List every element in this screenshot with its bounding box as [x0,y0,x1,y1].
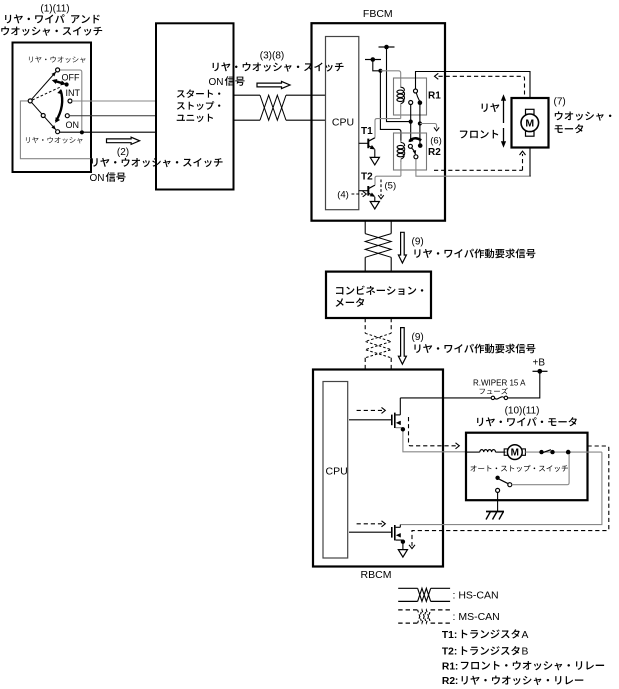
signal (9) block arrow to RBCM [398,328,406,365]
svg-text:T1: T1 [442,630,454,641]
front arrow [503,128,505,145]
wire mid to start-stop unit [69,115,155,117]
node common junction [80,130,84,134]
wire to R1 coil [380,71,400,86]
T1 collector wire to R1 coil [375,119,401,138]
R2 moving arm [412,148,416,154]
R2 bold arm arc [409,138,421,141]
thick OFF movement arrow [54,81,64,84]
MOSFET Q2 low side [349,531,392,533]
legend HS-CAN symbol [398,587,417,589]
contact OFF (top) [56,68,60,72]
svg-text:(10)(11): (10)(11) [505,406,540,417]
motor armature [507,445,522,460]
wire R2 common to motor return [416,159,531,176]
switch arm dashed INT position [32,87,59,100]
svg-text:R2: R2 [442,676,455,687]
R1 contact common wire to washer motor [416,72,531,99]
svg-text::: : [455,661,458,672]
combination meter box [326,272,431,318]
svg-text:R.WIPER 15 A: R.WIPER 15 A [473,379,526,388]
switch arm to OFF contact [32,72,57,100]
svg-text:(1)(11): (1)(11) [40,4,69,15]
svg-text:R1: R1 [428,91,441,102]
motor return wire to Q2 [400,452,602,524]
switch SW1 box [13,43,92,173]
rear wiper motor box [466,433,588,501]
wire B2 to coils junction [373,60,381,71]
chassis ground [486,511,504,513]
T2 ground [370,202,379,210]
R2 arm contact node [418,143,423,148]
MS-CAN meter to RBCM (dashed) [364,318,366,333]
HS-CAN twist [260,95,286,120]
relay R2 rear washer relay [394,133,427,170]
RBCM box [313,370,443,567]
contact bottom [56,130,60,134]
start-stop unit U1 [156,23,234,189]
svg-text:(3)(8): (3)(8) [260,51,284,62]
svg-text:(7): (7) [554,97,566,108]
Q1 drain wire [399,398,401,415]
wire common to start-stop unit [60,131,156,133]
MOSFET Q1 high side [349,419,392,421]
contact INT [68,99,72,103]
Q2 drain wire [399,525,401,528]
RBCM CPU box [323,382,348,559]
signal (9) block arrow to meter [398,232,406,263]
svg-text::: : [454,630,457,641]
wire motor to auto-stop contacts [525,451,602,453]
relay R1 front washer relay [394,78,427,115]
svg-text:ON: ON [66,120,80,130]
svg-text:(5): (5) [385,181,397,192]
auto-stop switch label [470,465,567,472]
washer motor M1 feedback dashed [439,76,525,94]
HS-CAN FBCM to meter [364,221,366,234]
contact on lower arm [41,114,45,118]
dashed feedback from motor [412,446,609,546]
thick INT/ON movement arc [56,91,62,122]
svg-text:T2: T2 [361,172,373,183]
auto-stop ground contact [496,488,500,492]
dashed drive arrow CPU to Q1 [357,409,382,411]
wire INT to start-stop unit [72,100,156,102]
dashed drive arrow CPU to Q2 [357,523,382,525]
svg-text:RBCM: RBCM [361,569,392,581]
svg-text:CPU: CPU [326,466,348,478]
signal (6) sense wire [420,124,437,129]
wire fuse to Q1 drain [400,397,491,399]
svg-text:B: B [522,647,529,658]
R2 coil [400,141,402,144]
washer motor return wire [529,148,531,177]
wire R1 NO to rail and R2 [410,105,412,142]
front direction label [460,130,498,138]
auto-stop moving contact [495,476,499,480]
node sense junction [418,121,422,125]
legend MS-CAN symbol [398,609,417,611]
motor brushes [504,449,507,455]
svg-text:R2: R2 [428,147,441,158]
T2 emitter [368,193,374,196]
HS-CAN bus wires SSU to FBCM [234,94,261,96]
R1 NO contact [409,101,413,105]
svg-text:(9): (9) [412,332,424,343]
FBCM CPU box [326,37,359,210]
node rail junction [409,120,413,124]
svg-text:(6): (6) [430,136,442,147]
T2 collector wire to R2 coil [375,176,401,185]
wire R1 arm down to R2 arm [419,105,421,144]
T1 ground [370,157,379,165]
wire +B to fuse [508,371,540,398]
switch arm to lower contact [32,103,57,131]
wire common loop right [60,70,82,130]
svg-text:(4): (4) [337,190,349,201]
node arm position dot [65,82,69,86]
R1 arm contact node [418,100,423,105]
Q1 body arrow [396,421,400,425]
auto-stop wire to main [512,454,569,485]
R1 coil to T1 wire [400,106,402,119]
washer motor M1 box [512,98,549,148]
node coil feed junction [378,69,382,73]
T1 emitter [368,146,374,149]
rear arrow [503,98,505,124]
svg-text:CPU: CPU [332,116,354,128]
svg-text:(9): (9) [412,237,424,248]
svg-text:T2: T2 [442,647,454,658]
svg-text:ON: ON [90,173,105,184]
R2 coil to T2 wire [400,161,402,177]
Q1 source wire to motor [396,428,466,452]
signal (3)(8) block arrow [257,81,290,88]
rear direction label [482,103,500,112]
svg-text::: : [455,676,458,687]
R1 coil [400,85,402,88]
rear washer label bottom [26,137,83,144]
svg-text:: HS-CAN: : HS-CAN [453,589,499,601]
Q2 body arrow [396,533,400,537]
contact mid [65,114,69,118]
washer motor armature [521,114,539,132]
FBCM box [312,23,446,221]
pivot [28,99,32,103]
wire B1 to relay contacts rail [387,47,411,122]
R2 NO contact [408,144,412,148]
washer motor brushes [526,109,535,114]
Q2 source to ground [396,540,403,550]
svg-text:A: A [522,630,529,641]
rear washer label top [29,56,86,63]
wire to R2 coil [380,71,401,142]
svg-text:: MS-CAN: : MS-CAN [453,611,500,623]
svg-text:INT: INT [66,88,81,98]
svg-text:M: M [525,118,534,130]
power feed node B2 [365,59,381,61]
motor coil [466,451,480,453]
signal (2) block arrow [107,137,140,144]
R2 common contact [414,155,418,159]
R1 common contact [414,89,418,93]
svg-text:T1: T1 [361,126,373,137]
svg-text:+B: +B [533,357,546,368]
dashed signal into motor [409,417,457,446]
auto-stop blade [543,450,551,453]
svg-text:M: M [511,448,519,459]
svg-text:FBCM: FBCM [363,8,393,20]
R1 moving arm [416,93,419,101]
svg-text::: : [454,647,457,658]
svg-text:(2): (2) [117,147,129,158]
power feed node B1 [379,46,395,48]
svg-text:OFF: OFF [62,73,80,83]
wire pivot loop left [20,101,90,159]
svg-text:R1: R1 [442,661,455,672]
Q2 ground [398,550,407,558]
svg-text:ON: ON [209,77,224,88]
